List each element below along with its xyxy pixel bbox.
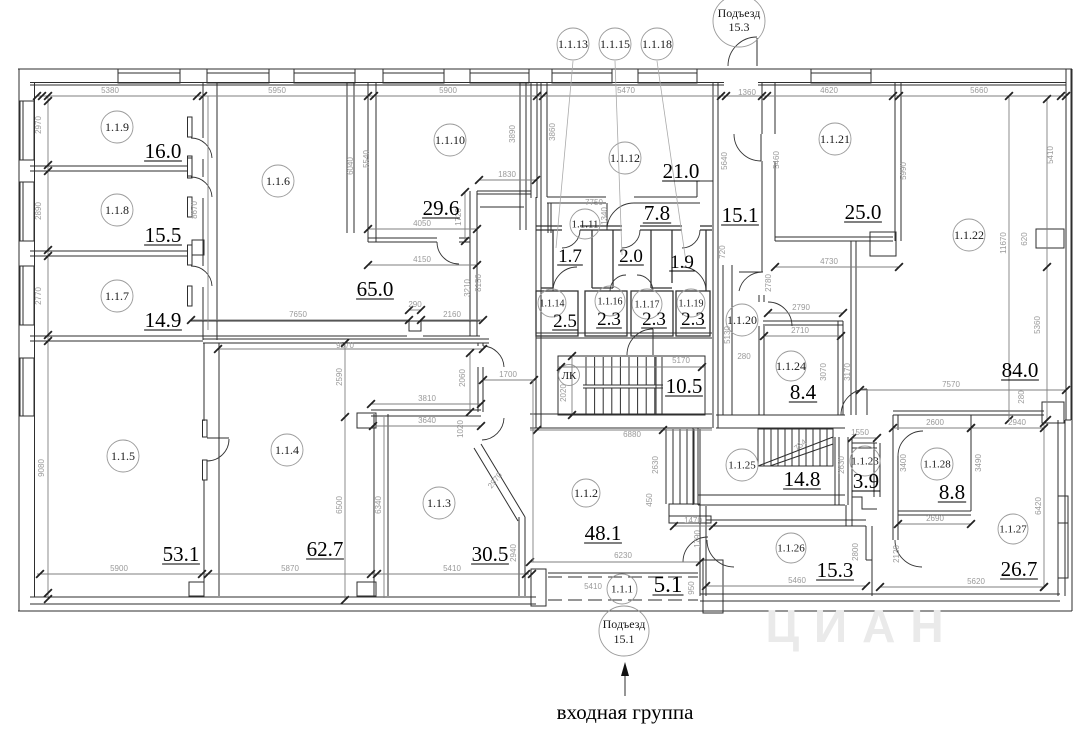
stair landing rail [583, 384, 663, 386]
svg-text:1.9: 1.9 [670, 252, 694, 273]
svg-text:15.1: 15.1 [722, 203, 759, 227]
wall above stairs 14.8 [716, 414, 845, 416]
svg-text:Подъезд: Подъезд [718, 6, 761, 20]
svg-text:1.1.14: 1.1.14 [540, 298, 565, 309]
room 1.1.28 walls [893, 410, 1044, 412]
door upper cell [483, 346, 504, 367]
svg-text:26.7: 26.7 [1001, 557, 1038, 581]
right wall window boxes [1036, 229, 1064, 248]
wall 1.1.10 bottom [368, 237, 437, 239]
svg-text:2600: 2600 [926, 418, 944, 427]
svg-text:6880: 6880 [623, 430, 641, 439]
lower stair flight to hall [666, 429, 700, 504]
svg-text:9080: 9080 [37, 459, 46, 477]
svg-text:2630: 2630 [651, 456, 660, 474]
wall between left rooms and room 1.1.6 [202, 82, 204, 138]
entrance 1.1.1 strip walls [548, 572, 698, 574]
stairs LK main box [558, 356, 705, 415]
shaft box at wall A [192, 240, 204, 255]
svg-text:5640: 5640 [720, 152, 729, 170]
room 1.1.3 right wall [518, 517, 520, 596]
svg-text:53.1: 53.1 [163, 542, 200, 566]
svg-text:6230: 6230 [614, 551, 632, 560]
room 1.1.26 left wall [699, 506, 701, 596]
room 1.1.23 walls [852, 442, 877, 444]
svg-text:280: 280 [737, 352, 751, 361]
svg-text:1.1.6: 1.1.6 [266, 174, 290, 188]
svg-text:1.1.4: 1.1.4 [275, 443, 299, 457]
svg-text:15.1: 15.1 [614, 632, 635, 646]
entrance left pier [531, 569, 546, 606]
svg-text:6500: 6500 [335, 496, 344, 514]
wall between 1.1.26 and 1.1.27 [865, 526, 867, 560]
connector walls right of 1.1.10 [477, 190, 531, 192]
wc room 1.1.14 box [536, 291, 578, 336]
dim chain top [37, 95, 1066, 97]
room 1.1.24 right wall [837, 321, 839, 415]
svg-text:1.1.13: 1.1.13 [558, 37, 588, 51]
room labels circles [101, 111, 133, 143]
svg-text:620: 620 [1020, 232, 1029, 246]
svg-text:16.0: 16.0 [145, 139, 182, 163]
svg-text:1360: 1360 [738, 88, 756, 97]
entrance circle 15.3 [713, 0, 765, 47]
wall between 1.1.5 and 1.1.4 [218, 343, 220, 596]
svg-text:8.4: 8.4 [790, 380, 817, 404]
left exterior wall [34, 82, 36, 597]
stair flight 14.8 [758, 429, 833, 466]
door to 1.1.3 [482, 418, 504, 440]
svg-text:25.0: 25.0 [845, 200, 882, 224]
middle block bottom wall [536, 332, 712, 334]
svg-text:11670: 11670 [999, 232, 1008, 254]
entrance arrow [624, 672, 626, 696]
svg-text:5410: 5410 [584, 582, 602, 591]
corridor 15.1 left wall [712, 82, 714, 428]
door 15.1 to 1.1.20 [739, 271, 763, 273]
leader lines [556, 61, 573, 248]
svg-text:2790: 2790 [792, 303, 810, 312]
svg-text:7750: 7750 [585, 198, 603, 207]
svg-text:15.3: 15.3 [817, 558, 854, 582]
dim chain left [47, 96, 49, 596]
svg-text:1.1.18: 1.1.18 [642, 37, 672, 51]
svg-text:1700: 1700 [499, 370, 517, 379]
svg-text:30.5: 30.5 [472, 542, 509, 566]
svg-text:5360: 5360 [1033, 316, 1042, 334]
wc room 1.1.19 box [676, 291, 710, 336]
steps near hall 1.1.2 [669, 504, 700, 516]
diagonal wall 1.1.3 [481, 444, 525, 517]
svg-text:3890: 3890 [508, 125, 517, 143]
svg-text:1550: 1550 [851, 428, 869, 437]
svg-text:1.1.19: 1.1.19 [679, 298, 704, 309]
room 1.1.26 top wall [706, 519, 866, 521]
pier at bottom wall [189, 582, 204, 596]
svg-text:5460: 5460 [788, 576, 806, 585]
svg-text:65.0: 65.0 [357, 277, 394, 301]
svg-text:1.1.23: 1.1.23 [851, 456, 879, 468]
door at stair landing right [841, 389, 867, 415]
svg-text:7.8: 7.8 [644, 201, 670, 225]
svg-text:7570: 7570 [942, 380, 960, 389]
svg-text:2.3: 2.3 [597, 309, 621, 330]
svg-text:2060: 2060 [458, 369, 467, 387]
pier box at 84.0 corner [1042, 402, 1064, 423]
svg-text:3070: 3070 [819, 363, 828, 381]
svg-text:2020: 2020 [559, 384, 568, 402]
svg-text:1.1.26: 1.1.26 [777, 543, 805, 555]
svg-text:290: 290 [408, 300, 422, 309]
svg-text:1.7: 1.7 [558, 246, 582, 267]
room 1.1.3 top wall [371, 409, 481, 411]
svg-text:4150: 4150 [413, 255, 431, 264]
svg-text:2.3: 2.3 [681, 309, 705, 330]
dims bottom [37, 573, 529, 575]
entrance door 15.3 leaf and arc [756, 38, 758, 66]
site outline left [18, 69, 20, 611]
svg-text:1.1.10: 1.1.10 [435, 133, 465, 147]
svg-text:1.1.5: 1.1.5 [111, 449, 135, 463]
svg-text:5460: 5460 [772, 151, 781, 169]
svg-text:2590: 2590 [335, 368, 344, 386]
door to hall 1.1.2 [683, 537, 708, 562]
wall right of 1.1.4 top [477, 343, 479, 412]
svg-text:6340: 6340 [374, 496, 383, 514]
svg-text:1.1.12: 1.1.12 [610, 151, 640, 165]
bottom exterior wall [30, 596, 536, 598]
svg-text:1470: 1470 [684, 516, 702, 525]
svg-text:84.0: 84.0 [1002, 358, 1039, 382]
svg-text:3210: 3210 [463, 279, 472, 297]
site outline right [1071, 69, 1073, 611]
right exterior wall lower [1057, 420, 1059, 596]
svg-text:6420: 6420 [1034, 497, 1043, 515]
entrance right pier [703, 560, 723, 613]
stair treads upper flight [586, 357, 655, 385]
wall 1.1.10 right / shaft to 1.1.12 [519, 82, 521, 230]
dims rooms 24 28 [768, 312, 843, 314]
svg-text:5540: 5540 [362, 150, 371, 168]
door at stairs top [627, 329, 653, 355]
wc room 1.1.16 box [585, 291, 627, 336]
svg-text:4050: 4050 [413, 219, 431, 228]
svg-text:1.1.20: 1.1.20 [727, 313, 757, 327]
top wall of rooms 1.1.5 and 1.1.4 [203, 338, 489, 340]
svg-text:3810: 3810 [418, 394, 436, 403]
wall under stairs [530, 413, 712, 415]
svg-text:1.1.24: 1.1.24 [776, 359, 806, 373]
svg-text:4730: 4730 [820, 257, 838, 266]
svg-text:Подъезд: Подъезд [603, 617, 646, 631]
wall between 1.1.8 and 1.1.7 [30, 250, 188, 252]
svg-text:1.1.11: 1.1.11 [571, 219, 598, 231]
room 1.1.21 right wall [894, 82, 896, 241]
svg-text:8.8: 8.8 [939, 480, 965, 504]
svg-text:450: 450 [645, 493, 654, 507]
wall between 1.1.22 and middle block [850, 241, 852, 313]
stair width dim [571, 356, 573, 415]
svg-text:1.1.28: 1.1.28 [923, 459, 951, 471]
svg-text:29.6: 29.6 [423, 196, 460, 220]
svg-text:6040: 6040 [346, 157, 355, 175]
svg-text:1.1.9: 1.1.9 [105, 120, 129, 134]
shaft between 14.8 and 3.9 [834, 437, 836, 505]
room 1.1.27 left wall upper [892, 515, 894, 540]
svg-text:15.5: 15.5 [145, 223, 182, 247]
svg-text:1.1.25: 1.1.25 [728, 460, 756, 472]
svg-text:5.1: 5.1 [654, 572, 683, 597]
stair treads lower flight [586, 388, 655, 414]
svg-text:2160: 2160 [443, 310, 461, 319]
svg-text:1.1.7: 1.1.7 [105, 289, 129, 303]
svg-text:3640: 3640 [418, 416, 436, 425]
door 1.1.8 [188, 156, 193, 176]
svg-text:1830: 1830 [498, 170, 516, 179]
svg-text:5660: 5660 [970, 86, 988, 95]
svg-text:2940: 2940 [509, 544, 518, 562]
left wall windows [20, 101, 34, 160]
svg-text:5130: 5130 [723, 326, 732, 344]
dims room 1.1.6 [207, 96, 209, 330]
svg-text:5990: 5990 [899, 162, 908, 180]
room 1.1.21 left wall [774, 82, 776, 134]
right exterior wall upper [1065, 69, 1067, 420]
top exterior wall [30, 82, 724, 84]
wall left of stairs [535, 338, 537, 428]
room 14.8 bottom wall [698, 494, 845, 496]
wc room 1.1.17 box [631, 291, 673, 336]
room 1.1.21 bottom wall [775, 236, 893, 238]
svg-text:62.7: 62.7 [307, 537, 344, 561]
svg-text:5410: 5410 [1046, 146, 1055, 164]
svg-text:7650: 7650 [289, 310, 307, 319]
svg-text:720: 720 [718, 245, 727, 259]
wall between 1.1.24 and 1.1.22 [850, 313, 852, 415]
site outline top [18, 68, 1072, 70]
svg-text:2630: 2630 [837, 456, 846, 474]
svg-text:2690: 2690 [926, 514, 944, 523]
svg-text:2.5: 2.5 [553, 311, 577, 332]
svg-text:5170: 5170 [672, 356, 690, 365]
svg-text:1.1.22: 1.1.22 [954, 228, 984, 242]
vestibule side walls [552, 230, 554, 288]
svg-text:5380: 5380 [101, 86, 119, 95]
svg-text:2970: 2970 [34, 116, 43, 134]
room 1.1.12 left wall [540, 82, 542, 197]
room 14.8 left wall [692, 428, 694, 505]
door to 1.1.28 [894, 430, 902, 456]
corridor 15.1 right wall [761, 82, 763, 134]
svg-text:4620: 4620 [820, 86, 838, 95]
door corridor to 1.1.21 [734, 134, 761, 161]
svg-text:ЦИАН: ЦИАН [765, 600, 958, 652]
svg-text:8670: 8670 [190, 201, 199, 219]
room 1.1.12 bottom wall [547, 196, 697, 198]
svg-text:48.1: 48.1 [585, 521, 622, 545]
stair central rail [655, 357, 657, 414]
wall 1.1.10 left [367, 82, 369, 242]
svg-text:1.1.16: 1.1.16 [598, 296, 623, 307]
svg-text:2770: 2770 [34, 287, 43, 305]
svg-text:1.1.8: 1.1.8 [105, 203, 129, 217]
door 1.1.26 left [707, 540, 734, 567]
svg-text:2940: 2940 [1008, 418, 1026, 427]
svg-text:входная группа: входная группа [557, 700, 694, 724]
svg-text:10.5: 10.5 [666, 374, 703, 398]
svg-text:280: 280 [1017, 390, 1026, 404]
svg-text:3490: 3490 [974, 454, 983, 472]
entrance circle 15.1 [599, 606, 649, 656]
svg-text:8150: 8150 [474, 274, 483, 292]
svg-text:15.3: 15.3 [729, 20, 750, 34]
wall 1.1.4 and 1.1.3 [373, 414, 375, 596]
svg-text:1790: 1790 [693, 530, 702, 548]
door 1.1.5 to 1.1.4 [203, 420, 208, 437]
svg-text:2120: 2120 [892, 545, 901, 563]
middle block top wall [536, 225, 562, 227]
svg-text:3860: 3860 [548, 123, 557, 141]
svg-text:ЛК: ЛК [562, 370, 577, 382]
svg-text:5950: 5950 [268, 86, 286, 95]
svg-text:1.1.2: 1.1.2 [574, 486, 598, 500]
door 1.1.10 [437, 242, 459, 264]
vestibule door arcs from corridor [562, 230, 580, 248]
svg-text:1.1.21: 1.1.21 [820, 132, 850, 146]
door to cell above 1.1.24 [768, 302, 792, 326]
svg-text:1.1.27: 1.1.27 [999, 524, 1027, 536]
svg-text:2780: 2780 [764, 274, 773, 292]
wall between 1.1.7 and 1.1.5 [30, 335, 203, 337]
svg-text:1.1.15: 1.1.15 [600, 37, 630, 51]
corridor 1.1.20 left thick wall [722, 265, 724, 415]
svg-text:3400: 3400 [899, 454, 908, 472]
room 1.1.24 left wall [758, 295, 760, 415]
svg-text:5620: 5620 [967, 577, 985, 586]
svg-text:950: 950 [687, 581, 696, 595]
svg-text:5410: 5410 [443, 564, 461, 573]
svg-text:5900: 5900 [439, 86, 457, 95]
wall 1.1.6 right / shaft [346, 82, 348, 233]
svg-text:5470: 5470 [617, 86, 635, 95]
svg-text:5900: 5900 [110, 564, 128, 573]
wall right of room 1.1.6 [469, 191, 471, 336]
svg-text:1.1.1: 1.1.1 [611, 584, 633, 596]
middle block left wall [535, 197, 537, 338]
svg-text:2.0: 2.0 [619, 246, 643, 267]
bottom wall of room 1.1.6 [191, 320, 480, 322]
wall left of 1.1.26 top [845, 505, 847, 526]
svg-text:2.3: 2.3 [642, 309, 666, 330]
site outline bottom [18, 610, 1072, 612]
svg-text:5870: 5870 [281, 564, 299, 573]
wall between 1.1.9 and 1.1.8 [30, 165, 188, 167]
LK circle label [559, 365, 580, 386]
svg-text:1.1.3: 1.1.3 [427, 496, 451, 510]
wc door arcs [553, 267, 577, 291]
door 1.1.9 [188, 117, 193, 137]
svg-text:3170: 3170 [843, 363, 852, 381]
svg-text:3.9: 3.9 [853, 469, 879, 493]
svg-text:1020: 1020 [456, 420, 465, 438]
svg-text:2890: 2890 [34, 202, 43, 220]
door 1.1.26 right [895, 540, 922, 567]
svg-text:2710: 2710 [791, 326, 809, 335]
svg-text:14.8: 14.8 [784, 467, 821, 491]
door 1.1.12 [606, 196, 634, 204]
door 1.1.7 [188, 245, 193, 265]
top wall window sills [118, 73, 180, 83]
svg-text:14.9: 14.9 [145, 308, 182, 332]
svg-text:21.0: 21.0 [663, 159, 700, 183]
room 1.1.24 top wall [763, 320, 843, 322]
svg-text:1340: 1340 [600, 207, 609, 225]
